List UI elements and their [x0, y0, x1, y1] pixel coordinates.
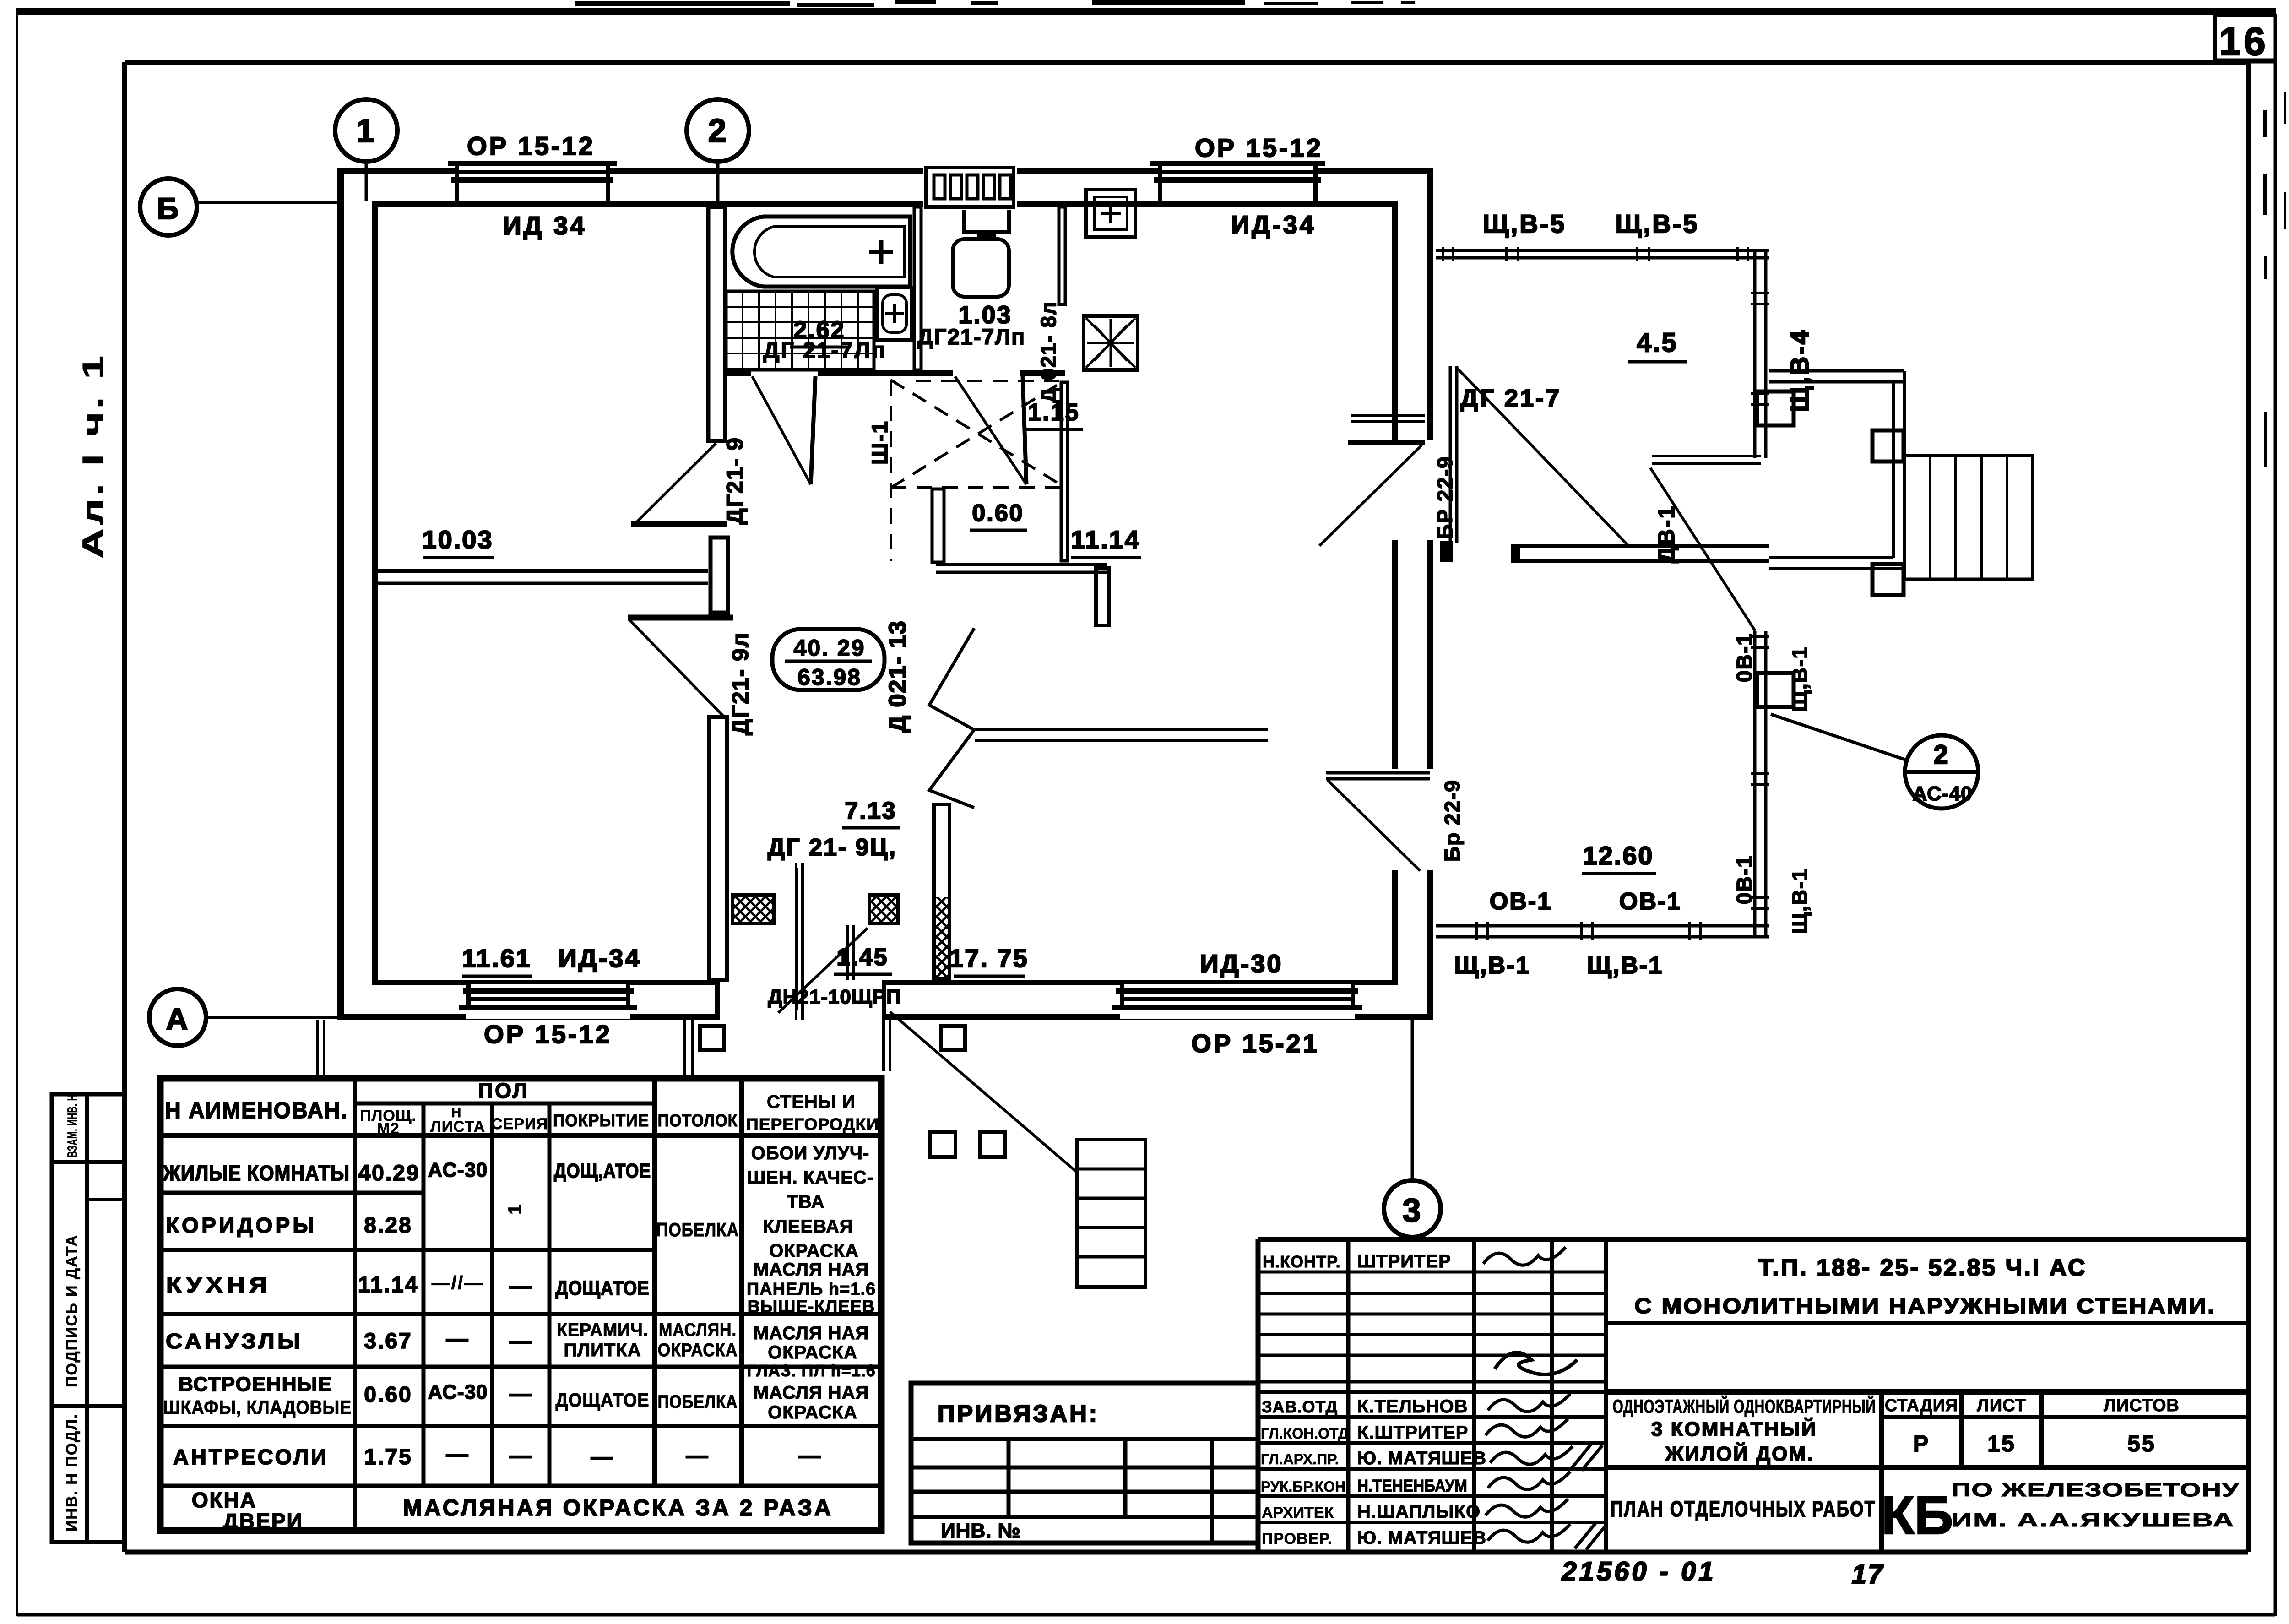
- svg-text:3: 3: [1402, 1192, 1422, 1229]
- svg-text:ШЕН. КАЧЕС-: ШЕН. КАЧЕС-: [747, 1168, 873, 1188]
- svg-text:ИНВ. №: ИНВ. №: [941, 1520, 1021, 1542]
- svg-text:17: 17: [1852, 1559, 1884, 1589]
- svg-text:САНУЗЛЫ: САНУЗЛЫ: [166, 1329, 303, 1353]
- svg-text:Н.ТЕНЕНБАУМ: Н.ТЕНЕНБАУМ: [1357, 1477, 1467, 1496]
- svg-text:ГЛ.АРХ.ПР.: ГЛ.АРХ.ПР.: [1261, 1451, 1339, 1467]
- svg-text:ПРИВЯЗАН:: ПРИВЯЗАН:: [938, 1401, 1099, 1427]
- svg-text:ОКРАСКА: ОКРАСКА: [769, 1241, 859, 1261]
- svg-text:2: 2: [708, 113, 727, 149]
- svg-text:МАСЛЯН.: МАСЛЯН.: [659, 1320, 737, 1340]
- svg-text:ОР 15-12: ОР 15-12: [484, 1020, 612, 1048]
- svg-text:—: —: [510, 1274, 533, 1298]
- svg-text:АНТРЕСОЛИ: АНТРЕСОЛИ: [173, 1445, 329, 1469]
- svg-text:ДГ21-7Лп: ДГ21-7Лп: [917, 325, 1025, 349]
- svg-text:ДВЕРИ: ДВЕРИ: [223, 1509, 303, 1533]
- svg-text:ТВА: ТВА: [787, 1192, 824, 1212]
- svg-text:АС-40: АС-40: [1912, 782, 1972, 805]
- svg-text:Щ,В-1: Щ,В-1: [1587, 952, 1663, 979]
- svg-text:КУХНЯ: КУХНЯ: [166, 1273, 271, 1297]
- svg-text:А: А: [166, 1002, 190, 1036]
- svg-text:ДГ 21-7Лп: ДГ 21-7Лп: [763, 337, 887, 363]
- svg-text:ДОЩ,АТОЕ: ДОЩ,АТОЕ: [554, 1160, 651, 1182]
- svg-text:ДН21-10ЩРП: ДН21-10ЩРП: [768, 986, 901, 1008]
- svg-text:—: —: [799, 1444, 822, 1468]
- svg-text:ОКНА: ОКНА: [192, 1488, 257, 1512]
- svg-text:Щ,В-5: Щ,В-5: [1616, 209, 1699, 238]
- svg-text:7.13: 7.13: [845, 798, 896, 824]
- svg-text:ПОДПИСЬ И ДАТА: ПОДПИСЬ И ДАТА: [63, 1234, 81, 1387]
- svg-text:ДВ-1: ДВ-1: [1654, 505, 1679, 563]
- svg-text:Щ,В-5: Щ,В-5: [1483, 209, 1567, 238]
- svg-text:0.60: 0.60: [364, 1383, 412, 1407]
- svg-text:ЖИЛОЙ ДОМ.: ЖИЛОЙ ДОМ.: [1665, 1442, 1814, 1465]
- svg-text:ВЗАМ. ИНВ. Н: ВЗАМ. ИНВ. Н: [65, 1094, 80, 1157]
- svg-text:КЕРАМИЧ.: КЕРАМИЧ.: [557, 1320, 648, 1340]
- svg-text:0В-1: 0В-1: [1732, 855, 1756, 904]
- svg-text:63.98: 63.98: [797, 664, 862, 690]
- svg-text:2: 2: [1933, 740, 1949, 770]
- svg-text:8.28: 8.28: [364, 1213, 412, 1238]
- svg-text:ПРОВЕР.: ПРОВЕР.: [1262, 1530, 1332, 1548]
- svg-text:ЗАВ.ОТД: ЗАВ.ОТД: [1262, 1397, 1338, 1416]
- svg-text:0.60: 0.60: [972, 500, 1024, 527]
- svg-text:Щ,В-4: Щ,В-4: [1785, 328, 1814, 412]
- svg-text:ПЕРЕГОРОДКИ: ПЕРЕГОРОДКИ: [746, 1115, 879, 1134]
- svg-text:Б: Б: [157, 191, 180, 225]
- svg-text:16: 16: [2219, 20, 2268, 64]
- svg-text:ОВ-1: ОВ-1: [1619, 888, 1681, 915]
- svg-text:1.45: 1.45: [836, 944, 888, 971]
- svg-text:Щ,В-1: Щ,В-1: [1454, 952, 1530, 979]
- svg-text:10.03: 10.03: [422, 525, 493, 554]
- svg-text:40.29: 40.29: [358, 1161, 420, 1185]
- svg-text:Бр 22-9: Бр 22-9: [1440, 779, 1464, 862]
- svg-text:4.5: 4.5: [1637, 328, 1678, 358]
- svg-text:—: —: [510, 1329, 533, 1353]
- svg-text:ШТРИТЕР: ШТРИТЕР: [1357, 1251, 1451, 1271]
- svg-text:—: —: [446, 1442, 470, 1466]
- svg-text:ШКАФЫ, КЛАДОВЫЕ: ШКАФЫ, КЛАДОВЫЕ: [163, 1396, 352, 1418]
- svg-text:11.14: 11.14: [358, 1273, 418, 1297]
- svg-text:ПОБЕЛКА: ПОБЕЛКА: [656, 1219, 739, 1240]
- svg-text:1.15: 1.15: [1028, 399, 1079, 426]
- svg-text:ПОЛ: ПОЛ: [478, 1079, 529, 1103]
- svg-text:ПЛАН ОТДЕЛОЧНЫХ РАБОТ: ПЛАН ОТДЕЛОЧНЫХ РАБОТ: [1611, 1497, 1876, 1521]
- svg-text:ВСТРОЕННЫЕ: ВСТРОЕННЫЕ: [179, 1373, 332, 1396]
- svg-text:ПОБЕЛКА: ПОБЕЛКА: [658, 1392, 738, 1412]
- svg-text:Т.П. 188- 25- 52.85 Ч.I: Т.П. 188- 25- 52.85 Ч.I АС: [1758, 1255, 2087, 1281]
- svg-text:ИД-30: ИД-30: [1200, 949, 1283, 978]
- svg-text:ИД-34: ИД-34: [558, 944, 641, 972]
- svg-text:—: —: [446, 1327, 470, 1351]
- svg-text:—: —: [510, 1444, 533, 1468]
- svg-text:ДГ 21- 9Ц,: ДГ 21- 9Ц,: [768, 834, 897, 861]
- svg-text:ПОКРЫТИЕ: ПОКРЫТИЕ: [553, 1111, 649, 1130]
- svg-text:ОР 15-12: ОР 15-12: [467, 131, 595, 160]
- svg-text:М2: М2: [377, 1120, 399, 1137]
- svg-text:Р: Р: [1913, 1431, 1930, 1456]
- svg-text:МАСЛЯ НАЯ: МАСЛЯ НАЯ: [754, 1383, 869, 1403]
- svg-text:К.ТЕЛЬНОВ: К.ТЕЛЬНОВ: [1357, 1396, 1468, 1417]
- svg-text:СТАДИЯ: СТАДИЯ: [1885, 1396, 1958, 1415]
- svg-text:ОР 15-21: ОР 15-21: [1191, 1029, 1319, 1058]
- svg-text:Н.ШАПЛЫКО: Н.ШАПЛЫКО: [1357, 1502, 1481, 1522]
- svg-text:ДГ 21-7: ДГ 21-7: [1460, 385, 1561, 412]
- svg-text:ИД 34: ИД 34: [503, 211, 587, 240]
- svg-text:ЖИЛЫЕ КОМНАТЫ: ЖИЛЫЕ КОМНАТЫ: [163, 1161, 350, 1185]
- svg-text:3 КОМНАТНЫЙ: 3 КОМНАТНЫЙ: [1651, 1417, 1817, 1440]
- svg-text:КЛЕЕВАЯ: КЛЕЕВАЯ: [763, 1217, 853, 1237]
- svg-text:СТЕНЫ И: СТЕНЫ И: [767, 1092, 856, 1112]
- svg-text:ОДНОЭТАЖНЫЙ ОДНОКВАРТИРНЫЙ: ОДНОЭТАЖНЫЙ ОДНОКВАРТИРНЫЙ: [1613, 1395, 1876, 1417]
- svg-text:АС-30: АС-30: [428, 1159, 488, 1181]
- svg-text:ПОТОЛОК: ПОТОЛОК: [658, 1111, 738, 1130]
- svg-text:—: —: [686, 1444, 710, 1468]
- svg-text:—: —: [591, 1445, 614, 1469]
- svg-text:1: 1: [356, 113, 376, 149]
- svg-text:ИМ. А.А.ЯКУШЕВА: ИМ. А.А.ЯКУШЕВА: [1951, 1509, 2235, 1531]
- svg-text:ИД-34: ИД-34: [1231, 210, 1316, 239]
- svg-text:ОКРАСКА: ОКРАСКА: [658, 1340, 738, 1360]
- svg-text:0В-1: 0В-1: [1732, 633, 1756, 682]
- svg-text:55: 55: [2127, 1431, 2156, 1456]
- svg-text:ПАНЕЛЬ h=1.6: ПАНЕЛЬ h=1.6: [747, 1280, 876, 1299]
- svg-text:ОВ-1: ОВ-1: [1490, 888, 1552, 915]
- svg-text:1: 1: [505, 1203, 525, 1214]
- svg-text:СЕРИЯ: СЕРИЯ: [491, 1115, 548, 1133]
- svg-text:С МОНОЛИТНЫМИ НАРУЖНЫМИ СТЕН: С МОНОЛИТНЫМИ НАРУЖНЫМИ СТЕНАМИ.: [1634, 1294, 2216, 1318]
- svg-text:ДОЩАТОЕ: ДОЩАТОЕ: [556, 1389, 650, 1411]
- svg-text:11.14: 11.14: [1071, 525, 1140, 554]
- svg-text:Ю. МАТЯШЕВ: Ю. МАТЯШЕВ: [1357, 1528, 1486, 1548]
- svg-text:—//—: —//—: [432, 1273, 484, 1293]
- svg-text:ПЛИТКА: ПЛИТКА: [564, 1340, 641, 1360]
- svg-text:МАСЛЯНАЯ ОКРАСКА ЗА 2 РАЗА: МАСЛЯНАЯ ОКРАСКА ЗА 2 РАЗА: [403, 1495, 833, 1521]
- svg-text:—: —: [510, 1382, 533, 1406]
- svg-text:11.61: 11.61: [462, 944, 532, 972]
- svg-text:1.03: 1.03: [958, 301, 1012, 329]
- svg-text:КБ: КБ: [1882, 1485, 1953, 1546]
- svg-text:МАСЛЯ НАЯ: МАСЛЯ НАЯ: [754, 1323, 869, 1343]
- svg-text:21560 - 01: 21560 - 01: [1561, 1557, 1716, 1586]
- svg-text:12.60: 12.60: [1583, 841, 1654, 870]
- svg-text:АС-30: АС-30: [428, 1381, 488, 1403]
- svg-text:ЛИСТОВ: ЛИСТОВ: [2104, 1396, 2180, 1415]
- svg-text:БР 22-9: БР 22-9: [1433, 456, 1457, 539]
- svg-text:ГЛАЗ. ПЛ h=1.6: ГЛАЗ. ПЛ h=1.6: [747, 1361, 876, 1380]
- svg-text:40. 29: 40. 29: [793, 635, 865, 661]
- svg-text:Н.КОНТР.: Н.КОНТР.: [1263, 1252, 1341, 1271]
- svg-text:15: 15: [1987, 1431, 2016, 1456]
- svg-text:МАСЛЯ НАЯ: МАСЛЯ НАЯ: [754, 1260, 869, 1280]
- svg-text:Д 021- 8л: Д 021- 8л: [1036, 301, 1060, 403]
- svg-text:ЛИСТ: ЛИСТ: [1977, 1396, 2026, 1415]
- svg-text:К.ШТРИТЕР: К.ШТРИТЕР: [1357, 1423, 1468, 1443]
- svg-text:ГЛ.КОН.ОТД: ГЛ.КОН.ОТД: [1261, 1425, 1349, 1442]
- svg-text:3.67: 3.67: [364, 1329, 412, 1353]
- svg-text:ДГ21- 9: ДГ21- 9: [722, 437, 748, 525]
- svg-text:Ю. МАТЯШЕВ: Ю. МАТЯШЕВ: [1357, 1448, 1486, 1468]
- svg-text:Щ,В-1: Щ,В-1: [1788, 646, 1812, 712]
- svg-text:ДОЩАТОЕ: ДОЩАТОЕ: [556, 1277, 650, 1299]
- svg-text:Н АИМЕНОВАН.: Н АИМЕНОВАН.: [165, 1097, 348, 1123]
- svg-text:ОР 15-12: ОР 15-12: [1195, 133, 1323, 162]
- svg-text:Д 021- 13: Д 021- 13: [884, 620, 911, 733]
- svg-text:Ал. I ч. 1: Ал. I ч. 1: [76, 353, 109, 559]
- svg-text:Щ,В-1: Щ,В-1: [1788, 868, 1812, 934]
- svg-text:1.75: 1.75: [364, 1445, 412, 1469]
- svg-text:Ш-1: Ш-1: [868, 420, 892, 465]
- svg-text:ОКРАСКА: ОКРАСКА: [768, 1342, 857, 1363]
- svg-text:ИНВ. Н ПОДЛ.: ИНВ. Н ПОДЛ.: [63, 1413, 81, 1532]
- svg-text:ОКРАСКА: ОКРАСКА: [768, 1402, 857, 1423]
- svg-text:ЛИСТА: ЛИСТА: [430, 1118, 485, 1135]
- svg-text:ВЫШЕ-КЛЕЕВ: ВЫШЕ-КЛЕЕВ: [748, 1297, 875, 1316]
- svg-text:АРХИТЕК: АРХИТЕК: [1262, 1504, 1334, 1521]
- svg-text:ПО ЖЕЛЕЗОБЕТОНУ: ПО ЖЕЛЕЗОБЕТОНУ: [1951, 1479, 2240, 1500]
- svg-text:РУК.БР.КОН: РУК.БР.КОН: [1261, 1478, 1345, 1495]
- svg-text:КОРИДОРЫ: КОРИДОРЫ: [166, 1213, 317, 1237]
- svg-text:ОБОИ УЛУЧ-: ОБОИ УЛУЧ-: [751, 1143, 870, 1163]
- svg-text:ДГ21- 9л: ДГ21- 9л: [727, 632, 753, 735]
- svg-text:17. 75: 17. 75: [949, 944, 1029, 972]
